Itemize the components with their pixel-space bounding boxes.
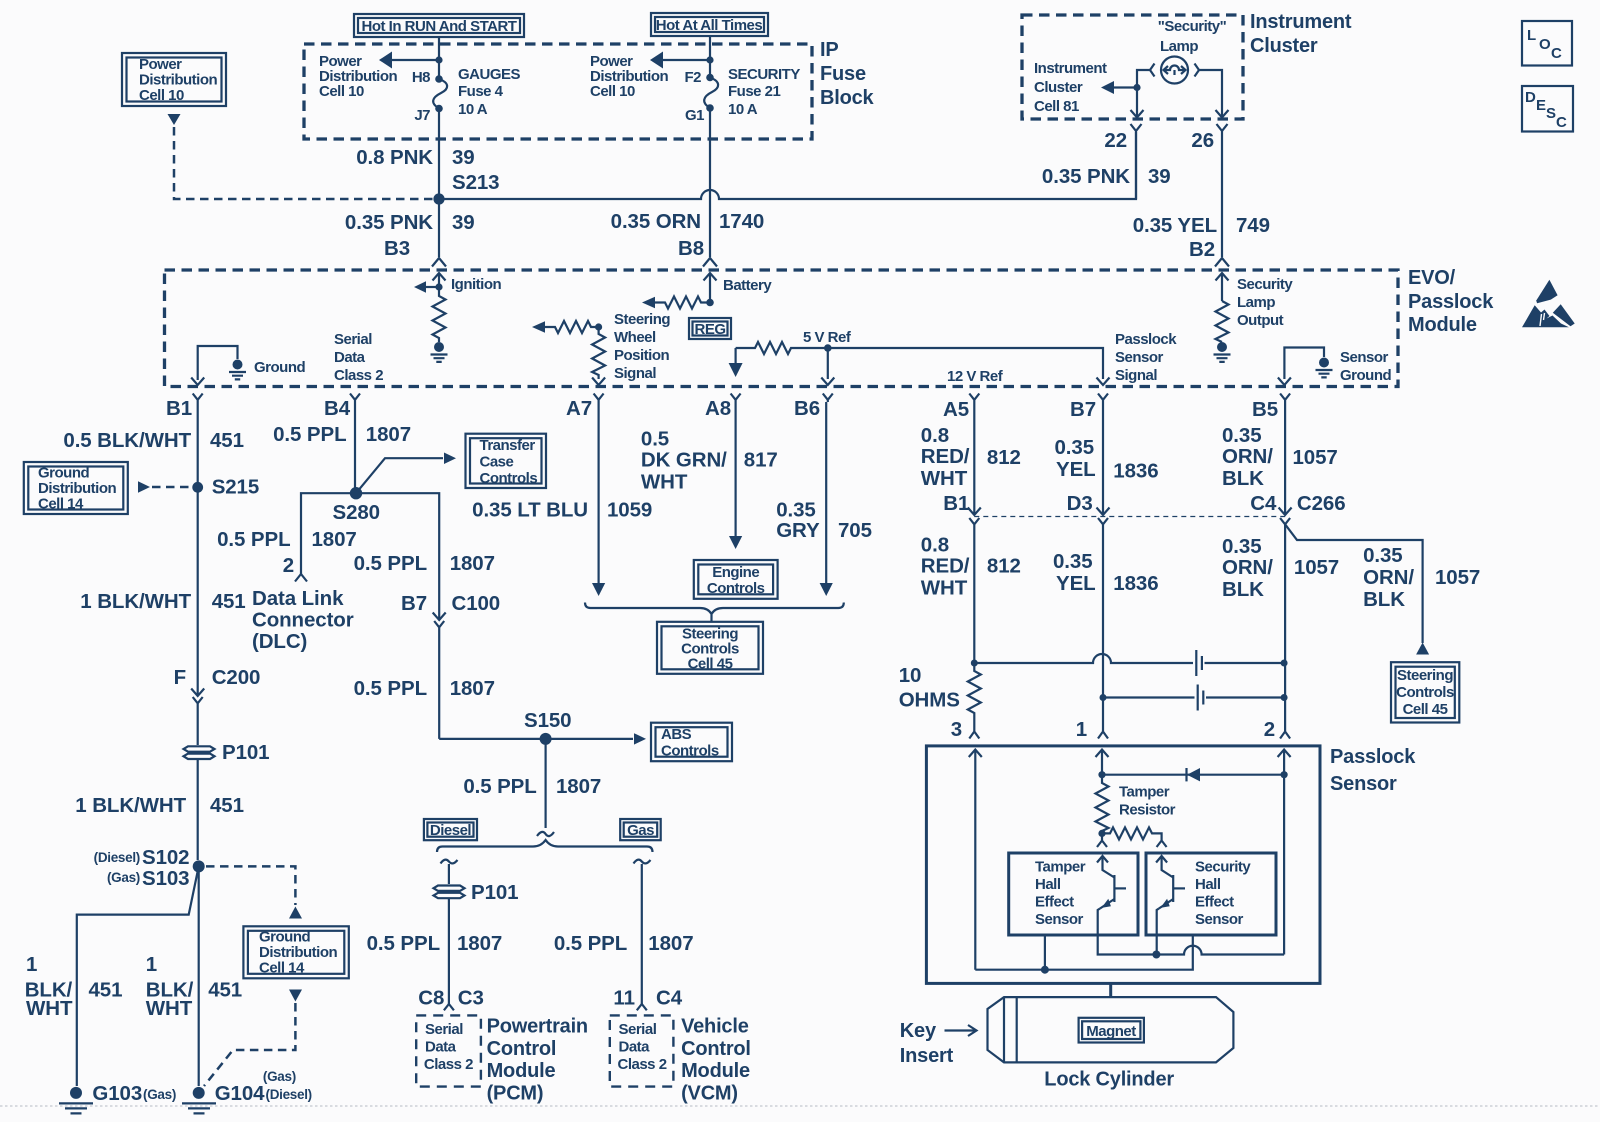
svg-text:Controls: Controls <box>661 743 719 760</box>
label box: Diesel <box>424 819 477 840</box>
arrow + dashed to S215 <box>138 481 193 492</box>
label: Security Lamp Output <box>1237 276 1293 329</box>
svg-text:10 A: 10 A <box>458 101 488 118</box>
svg-text:Sensor: Sensor <box>1035 911 1084 928</box>
svg-text:1836: 1836 <box>1113 572 1158 595</box>
svg-text:Effect: Effect <box>1035 894 1074 911</box>
label box: Hot At All Times <box>651 13 768 36</box>
svg-text:Output: Output <box>1237 312 1284 329</box>
12V ref wire to B7 <box>828 348 1110 385</box>
svg-text:S: S <box>1546 105 1556 122</box>
svg-text:Lamp: Lamp <box>1160 38 1198 55</box>
label: Instrument Cluster (title) <box>1250 11 1352 57</box>
svg-text:B3: B3 <box>384 237 410 260</box>
pin 2 arrow inside sensor <box>1278 750 1291 955</box>
label: 0.5 PPL 1807 (gas leg) <box>554 932 694 955</box>
svg-text:1807: 1807 <box>450 552 495 575</box>
label: G104 (Diesel) <box>215 1069 312 1105</box>
Instrument Cluster dashed box <box>1022 15 1243 119</box>
svg-text:0.8 PNK: 0.8 PNK <box>356 146 433 169</box>
IP fuse block dashed box <box>304 44 812 139</box>
svg-text:Ground: Ground <box>38 465 89 482</box>
svg-text:Sensor: Sensor <box>1340 349 1389 366</box>
harness break at split <box>537 832 554 836</box>
label: 0.5 PPL 1807 (B4) <box>273 423 411 446</box>
connector leaving cluster pin 22 <box>1131 124 1142 199</box>
svg-text:(VCM): (VCM) <box>681 1083 738 1105</box>
label: 1 BLK/WHT 451 (G103 branch) <box>25 953 123 1020</box>
steering wheel position signal: junction + resistors <box>532 321 605 385</box>
pin 1 arrow inside sensor <box>1096 750 1109 775</box>
label: 0.8 RED/ WHT 812 (lower) <box>921 534 1021 600</box>
svg-text:2: 2 <box>1264 718 1275 741</box>
svg-text:Battery: Battery <box>723 277 772 294</box>
label: Powertrain Control Module (PCM) <box>487 1016 588 1105</box>
svg-text:WHT: WHT <box>921 467 968 490</box>
svg-text:(Diesel): (Diesel) <box>266 1087 312 1102</box>
ESD symbol <box>1522 280 1575 328</box>
connector C8/C3 <box>444 1004 454 1010</box>
label: 0.35 YEL 1836 (upper) <box>1055 436 1159 483</box>
svg-text:Fuse 4: Fuse 4 <box>458 83 504 100</box>
splice S150 <box>540 733 552 745</box>
svg-text:1059: 1059 <box>607 499 652 522</box>
wire: S280 to C100 <box>356 493 439 610</box>
stem to lock cylinder <box>1109 983 1112 997</box>
svg-text:Cell 45: Cell 45 <box>1403 701 1448 718</box>
svg-text:451: 451 <box>210 794 244 817</box>
svg-text:0.5 PPL: 0.5 PPL <box>273 423 346 446</box>
wire B6 with arrow to steering brace <box>820 402 833 596</box>
svg-text:WHT: WHT <box>921 577 968 600</box>
label: 0.5 PPL 1807 (above S150) <box>354 677 495 700</box>
wire: main to G104 <box>198 866 200 1086</box>
arrow from Power Distribution box down <box>168 114 181 125</box>
svg-text:Signal: Signal <box>1115 367 1157 384</box>
svg-text:0.35 PNK: 0.35 PNK <box>345 211 433 234</box>
wire: S150 down to split <box>544 739 546 828</box>
svg-text:2: 2 <box>283 554 294 577</box>
ground (ignition) <box>431 342 448 362</box>
svg-text:YEL: YEL <box>1056 572 1096 595</box>
svg-text:B1: B1 <box>943 492 969 515</box>
svg-text:Serial: Serial <box>334 331 372 348</box>
svg-text:(Gas): (Gas) <box>107 870 140 885</box>
svg-text:Module: Module <box>487 1060 556 1082</box>
svg-text:Tamper: Tamper <box>1119 784 1170 801</box>
svg-text:BLK: BLK <box>1363 588 1405 611</box>
svg-text:Hall: Hall <box>1035 876 1061 893</box>
junction on battery branch <box>706 299 714 307</box>
label: G103 (Gas) <box>92 1082 176 1105</box>
svg-text:IP: IP <box>820 39 839 61</box>
emitter line to pin2 wire with hop <box>1156 946 1284 955</box>
wire: dashed from Power Distribution to S213 <box>174 127 434 199</box>
svg-text:S150: S150 <box>524 709 571 732</box>
box: Tamper Hall Effect Sensor <box>1009 853 1138 935</box>
svg-text:(Gas): (Gas) <box>143 1087 176 1102</box>
svg-text:Cell 14: Cell 14 <box>38 496 84 513</box>
svg-text:749: 749 <box>1236 214 1270 237</box>
svg-text:O: O <box>1539 36 1551 53</box>
label: Key Insert + arrow <box>900 1020 977 1067</box>
svg-text:Block: Block <box>820 87 875 109</box>
svg-text:P101: P101 <box>471 881 518 904</box>
pin arrow inside: ignition <box>433 273 446 287</box>
svg-text:Passlock: Passlock <box>1115 331 1177 348</box>
ground G104 <box>182 1087 216 1114</box>
connector 11/C4 <box>637 1004 647 1010</box>
svg-text:G104: G104 <box>215 1082 265 1105</box>
dashed box: Serial Data Class 2 (PCM) <box>416 1015 481 1086</box>
svg-text:Security: Security <box>1237 276 1293 293</box>
svg-text:B2: B2 <box>1189 238 1215 261</box>
wire: B4 to S280 <box>354 402 356 493</box>
connector pin 2 <box>1280 732 1290 739</box>
svg-text:J7: J7 <box>414 107 430 124</box>
svg-text:Connector: Connector <box>252 609 354 632</box>
svg-text:1807: 1807 <box>366 423 411 446</box>
arrow down at pin 22 inside cluster <box>1131 110 1144 118</box>
label: "Security" Lamp <box>1158 18 1227 55</box>
svg-text:C: C <box>1556 114 1567 131</box>
svg-text:Ground: Ground <box>259 929 310 946</box>
connector at C4/C266 <box>1279 508 1292 732</box>
svg-text:C8: C8 <box>418 987 444 1010</box>
svg-text:5 V Ref: 5 V Ref <box>803 329 852 346</box>
resistor (horizontal) to security collector <box>1102 827 1162 840</box>
splice S215 <box>192 482 203 493</box>
connector exit A7 <box>594 394 604 403</box>
label: 0.5 PPL 1807 (diesel leg) <box>367 932 503 955</box>
dashed box: Serial Data Class 2 (VCM) <box>610 1015 674 1086</box>
svg-text:ORN/: ORN/ <box>1363 566 1414 589</box>
label box: Gas <box>620 819 661 840</box>
svg-text:Key: Key <box>900 1020 937 1042</box>
svg-text:G103: G103 <box>92 1082 142 1105</box>
svg-text:Gas: Gas <box>627 822 654 839</box>
svg-text:1057: 1057 <box>1293 446 1338 469</box>
EVO/Passlock module dashed box <box>165 270 1399 387</box>
harness split brace <box>437 840 653 852</box>
wire: B3 vertical from Hot In RUN box through fuse <box>438 37 440 78</box>
label: Passlock Sensor Signal <box>1115 331 1177 384</box>
resistor 10 OHMS <box>968 663 981 731</box>
connector at D3/C266 <box>1097 508 1110 732</box>
break at gas branch top <box>634 860 651 864</box>
svg-text:1807: 1807 <box>312 528 357 551</box>
svg-text:RED/: RED/ <box>921 445 970 468</box>
svg-text:Ignition: Ignition <box>451 276 501 293</box>
svg-text:Class 2: Class 2 <box>334 367 383 384</box>
svg-text:Case: Case <box>480 454 514 471</box>
svg-text:WHT: WHT <box>26 997 73 1020</box>
arrow left (ignition to other) <box>414 281 439 292</box>
svg-text:Signal: Signal <box>614 365 656 382</box>
wire A5 upper <box>973 402 975 509</box>
svg-text:Transfer: Transfer <box>480 437 536 454</box>
resistor (ignition pull) <box>433 287 446 342</box>
svg-text:451: 451 <box>208 979 242 1002</box>
svg-text:1 BLK/WHT: 1 BLK/WHT <box>80 590 191 613</box>
svg-text:Ground: Ground <box>1340 367 1391 384</box>
arrow down at pin 26 inside cluster <box>1216 110 1229 118</box>
svg-text:Steering: Steering <box>1397 667 1453 684</box>
svg-text:Cell 10: Cell 10 <box>319 83 364 100</box>
svg-text:YEL: YEL <box>1056 458 1096 481</box>
faint scan artifact line at bottom <box>0 1105 1600 1107</box>
svg-text:1836: 1836 <box>1113 460 1158 483</box>
label: 1 BLK/WHT 451 (G104 branch) <box>146 953 242 1020</box>
svg-text:1: 1 <box>146 953 157 976</box>
svg-text:0.8: 0.8 <box>921 424 949 447</box>
box: Ground Distribution Cell 14 (lower) <box>243 926 348 978</box>
svg-text:Control: Control <box>487 1038 557 1060</box>
label: 0.35 GRY 705 <box>776 499 872 543</box>
label: 0.5 DK GRN/ WHT 817 <box>641 428 778 494</box>
svg-text:A5: A5 <box>943 398 969 421</box>
svg-text:1 BLK/WHT: 1 BLK/WHT <box>75 794 186 817</box>
svg-text:D: D <box>1525 89 1536 106</box>
svg-text:Class 2: Class 2 <box>618 1056 667 1073</box>
pin labels B1 D3 C4 C266 <box>943 492 1345 515</box>
svg-text:12 V Ref: 12 V Ref <box>947 368 1004 385</box>
svg-text:A8: A8 <box>705 397 731 420</box>
wire: S280 to DLC pin 2 <box>301 493 356 574</box>
svg-text:0.5 BLK/WHT: 0.5 BLK/WHT <box>63 429 191 452</box>
connector into tamper hall sensor <box>1097 833 1107 847</box>
svg-text:705: 705 <box>838 519 872 542</box>
ground G103 <box>59 1087 93 1114</box>
svg-text:ABS: ABS <box>661 726 692 743</box>
svg-text:B6: B6 <box>794 397 820 420</box>
svg-text:ORN/: ORN/ <box>1222 445 1273 468</box>
svg-text:39: 39 <box>452 146 475 169</box>
svg-text:E: E <box>1536 97 1546 114</box>
svg-text:C4: C4 <box>1250 492 1277 515</box>
svg-text:Distribution: Distribution <box>259 944 337 961</box>
fuse SECURITY Fuse 21 <box>704 74 718 112</box>
svg-text:C: C <box>1551 45 1562 62</box>
svg-text:WHT: WHT <box>146 997 193 1020</box>
label: 0.5 PPL 1807 (below S150) <box>463 775 601 798</box>
svg-text:Sensor: Sensor <box>1195 911 1244 928</box>
branch C266 to Steering Controls Cell 45 (right) <box>1285 524 1429 654</box>
svg-text:0.5 PPL: 0.5 PPL <box>463 775 536 798</box>
wire B7 upper <box>1102 402 1104 509</box>
box: Power Distribution Cell 10 (top-left) <box>122 53 226 106</box>
label: EVO/Passlock Module <box>1408 267 1494 336</box>
capacitor line 1 (A5 to B5) with hop over B7 <box>971 650 1288 676</box>
label: 0.35 ORN 1740 <box>611 210 765 233</box>
svg-text:C3: C3 <box>458 987 484 1010</box>
label: 1 BLK/WHT 451 (below P101) <box>75 794 244 817</box>
wire B5 upper <box>1284 402 1286 509</box>
svg-text:Security: Security <box>1195 859 1251 876</box>
svg-text:0.5 PPL: 0.5 PPL <box>367 932 440 955</box>
wire+arrow: to Transfer Case Controls <box>356 453 456 494</box>
svg-text:1807: 1807 <box>556 775 601 798</box>
svg-text:F: F <box>174 666 186 689</box>
label: Serial Data Class 2 <box>334 331 383 384</box>
wire: branch to G103 <box>77 866 199 1086</box>
ground return line pin3 <box>975 935 1193 974</box>
label: SECURITY Fuse 21 10 A <box>728 66 800 118</box>
connector exit B7 <box>1098 394 1108 403</box>
svg-text:39: 39 <box>1148 165 1171 188</box>
svg-text:0.5 PPL: 0.5 PPL <box>354 677 427 700</box>
svg-text:11: 11 <box>613 987 634 1010</box>
transistor Q2 (security) <box>1156 856 1185 955</box>
label: 0.35 PNK 39 (cluster) <box>1042 165 1171 188</box>
svg-text:451: 451 <box>210 429 244 452</box>
svg-text:Cell 45: Cell 45 <box>688 656 733 673</box>
svg-text:D3: D3 <box>1067 492 1093 515</box>
label: Tamper Resistor <box>1119 784 1176 819</box>
label: 1 BLK/WHT 451 (above C200) <box>80 590 245 613</box>
svg-text:A7: A7 <box>566 397 592 420</box>
C266 dashed connector line <box>974 516 1285 518</box>
svg-text:Hot At All Times: Hot At All Times <box>656 17 763 34</box>
svg-text:Cell 81: Cell 81 <box>1034 98 1079 115</box>
svg-text:0.35 YEL: 0.35 YEL <box>1133 214 1217 237</box>
label box: Hot In RUN And START <box>354 14 524 37</box>
resistor (lamp output) <box>1216 301 1229 342</box>
svg-text:0.8: 0.8 <box>921 534 949 557</box>
label: (Diesel) S102 <box>94 846 190 869</box>
svg-text:1057: 1057 <box>1294 556 1339 579</box>
pin arrow inside: security lamp output <box>1216 273 1229 301</box>
inline connector P101 (diesel) <box>434 886 465 1005</box>
svg-text:ORN/: ORN/ <box>1222 556 1273 579</box>
wire: lamp left lead down to pin 22 <box>1137 70 1151 117</box>
svg-text:1057: 1057 <box>1435 566 1480 589</box>
svg-text:Passlock: Passlock <box>1330 746 1416 768</box>
svg-text:Cell 14: Cell 14 <box>259 960 305 977</box>
svg-text:Fuse 21: Fuse 21 <box>728 83 781 100</box>
connector exit B1 <box>193 394 203 403</box>
svg-text:B7: B7 <box>1070 398 1096 421</box>
box: Security Hall Effect Sensor <box>1146 853 1276 935</box>
wire: S213 horizontal to instrument cluster pin 22 (hop over B8 wire) <box>439 132 1136 199</box>
connector entry B2 (top) <box>1215 258 1229 267</box>
security lamp (circle with filament) <box>1150 57 1199 84</box>
svg-text:S103: S103 <box>142 867 189 890</box>
arrow to Power Distribution (fuse 4 feed) <box>379 52 443 69</box>
svg-text:Sensor: Sensor <box>1330 773 1397 795</box>
A8 wire with filled arrow down <box>729 348 743 377</box>
wire: lamp right lead down to pin 26 <box>1198 70 1222 117</box>
svg-text:Wheel: Wheel <box>614 329 656 346</box>
svg-text:Cluster: Cluster <box>1250 35 1318 57</box>
label: 0.8 RED/ WHT 812 (upper) <box>921 424 1021 490</box>
svg-text:GRY: GRY <box>776 519 820 542</box>
svg-text:G1: G1 <box>685 107 704 124</box>
label: 0.35 LT BLU 1059 <box>472 499 652 522</box>
diode line pin1 to pin2 <box>1098 768 1287 781</box>
label: 0.5 PPL 1807 (DLC leg) <box>217 528 357 551</box>
label: Sensor Ground <box>1340 349 1391 384</box>
tamper resistor (vertical) <box>1096 775 1109 834</box>
label: GAUGES Fuse 4 10 A <box>458 66 521 118</box>
box: ABS Controls <box>651 723 732 762</box>
connector C200 <box>191 686 204 740</box>
wire A8 with arrow to Engine Controls <box>729 402 742 549</box>
ground wire for B1 pin <box>198 346 238 380</box>
svg-text:(PCM): (PCM) <box>487 1083 544 1105</box>
arrow to Power Distribution (fuse 21 feed) <box>650 52 714 69</box>
svg-text:H8: H8 <box>412 69 430 86</box>
LOC reference box <box>1522 21 1572 66</box>
box: Magnet <box>1079 1018 1144 1043</box>
svg-text:Hall: Hall <box>1195 876 1221 893</box>
svg-text:1807: 1807 <box>450 677 495 700</box>
svg-text:22: 22 <box>1104 129 1127 152</box>
svg-text:Control: Control <box>681 1038 751 1060</box>
svg-text:(DLC): (DLC) <box>252 630 307 653</box>
sensor ground wire B5 <box>1284 348 1324 380</box>
svg-text:0.35 ORN: 0.35 ORN <box>611 210 701 233</box>
svg-text:Class 2: Class 2 <box>424 1056 473 1073</box>
svg-text:BLK: BLK <box>1222 467 1264 490</box>
break at diesel branch top <box>441 860 458 864</box>
svg-text:OHMS: OHMS <box>899 689 960 712</box>
svg-text:WHT: WHT <box>641 471 688 494</box>
svg-text:0.5 PPL: 0.5 PPL <box>354 552 427 575</box>
wire: diesel branch <box>448 864 450 884</box>
svg-text:(Gas): (Gas) <box>263 1069 296 1084</box>
connector leaving cluster pin 26 <box>1217 124 1228 257</box>
svg-text:0.5 PPL: 0.5 PPL <box>554 932 627 955</box>
connector at B1/C266 <box>968 508 981 664</box>
arrow down at B1 inside module <box>191 378 204 386</box>
svg-text:1807: 1807 <box>457 932 502 955</box>
label: (Gas) S103 <box>107 867 190 890</box>
wire: B8 vertical from Hot At All Times through fuse 21 <box>709 36 711 77</box>
svg-text:Magnet: Magnet <box>1086 1023 1136 1040</box>
svg-text:Controls: Controls <box>1396 684 1454 701</box>
arrow: to Instrument Cluster Cell 81 <box>1101 81 1137 94</box>
5V ref resistor and node <box>736 342 832 354</box>
svg-text:Passlock: Passlock <box>1408 291 1494 313</box>
connector exit A5 <box>969 394 979 403</box>
label: 0.35 ORN/ BLK 1057 (lower) <box>1222 535 1339 601</box>
B6 wire arrow down <box>821 348 834 385</box>
label: Steering Wheel Position Signal <box>614 311 670 382</box>
pin arrow inside: battery <box>704 273 717 303</box>
label: 0.5 PPL 1807 (right leg) <box>354 552 495 575</box>
svg-text:0.35: 0.35 <box>1222 424 1262 447</box>
svg-text:Module: Module <box>681 1060 750 1082</box>
REG label box <box>689 318 731 339</box>
inline connector P101 (left) <box>184 740 215 860</box>
junction on ignition branch <box>435 283 442 290</box>
DESC reference box <box>1522 86 1573 132</box>
svg-text:Data: Data <box>619 1039 651 1056</box>
label: 0.35 PNK 39 (left column) <box>345 211 475 234</box>
connector pin 3 <box>969 732 979 739</box>
svg-text:3: 3 <box>951 718 962 741</box>
label: Instrument Cluster Cell 81 <box>1034 60 1107 115</box>
connector into security hall sensor <box>1157 841 1167 848</box>
box: Transfer Case Controls <box>466 434 547 488</box>
splice S102/S103 <box>193 860 205 872</box>
svg-text:Sensor: Sensor <box>1115 349 1164 366</box>
svg-text:Vehicle: Vehicle <box>681 1016 749 1038</box>
svg-text:REG: REG <box>694 321 725 338</box>
transistor Q1 (tamper) <box>1097 856 1156 955</box>
svg-text:Cluster: Cluster <box>1034 79 1083 96</box>
